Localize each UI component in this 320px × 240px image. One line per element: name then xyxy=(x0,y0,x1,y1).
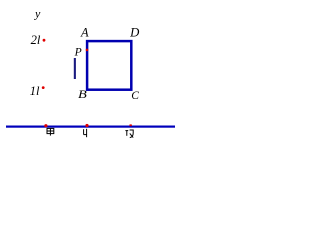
svg-text:A: A xyxy=(80,25,89,39)
svg-text:2l: 2l xyxy=(31,33,41,47)
svg-text:B: B xyxy=(78,89,87,101)
svg-text:C: C xyxy=(131,90,139,102)
svg-text:y: y xyxy=(34,7,41,21)
svg-text:1l: 1l xyxy=(30,84,40,98)
svg-text:P: P xyxy=(74,46,82,59)
svg-text:D: D xyxy=(129,25,139,39)
